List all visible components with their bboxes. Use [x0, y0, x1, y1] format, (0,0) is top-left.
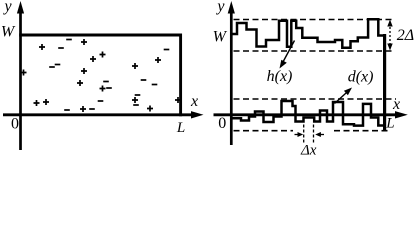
arrow from curve to h(x) label [280, 41, 295, 69]
svg-text:h(x): h(x) [267, 68, 293, 85]
svg-text:L: L [385, 115, 394, 131]
dashed vertical guide right of Delta-x step [313, 125, 315, 144]
svg-text:y: y [215, 0, 225, 15]
positive charges scattered in left panel [21, 39, 182, 112]
svg-text:W: W [213, 29, 228, 46]
right-pointing arrow of Delta-x indicator [295, 132, 304, 137]
left panel x-axis [3, 111, 204, 118]
dashed line upper bound of d(x) [234, 98, 397, 100]
right panel y-axis [228, 1, 235, 145]
arrow from curve to d(x) label [335, 88, 353, 104]
svg-text:0: 0 [11, 116, 19, 133]
right panel x-axis [214, 111, 408, 118]
dashed line y = W + Delta [234, 19, 394, 21]
svg-text:L: L [176, 120, 185, 136]
left panel y-axis [17, 1, 24, 150]
rough bottom curve d(x) [232, 101, 385, 126]
svg-text:y: y [2, 0, 12, 15]
svg-text:x: x [392, 96, 400, 113]
left-pointing arrow of Delta-x indicator [315, 132, 324, 137]
dashed line lower bound of d(x) left segment [234, 130, 294, 132]
right wall at x = L [383, 34, 386, 131]
negative charges scattered in left panel [49, 40, 169, 111]
dotted double-headed arrow for 2-Delta band [387, 20, 392, 51]
dashed line lower bound of d(x) right segment [334, 130, 391, 132]
dashed vertical guide left of Delta-x step [303, 125, 305, 144]
svg-text:0: 0 [218, 115, 226, 132]
dashed line y = W - Delta [234, 50, 394, 52]
svg-text:d(x): d(x) [348, 69, 374, 86]
svg-text:2Δ: 2Δ [397, 27, 414, 44]
rough boundary curve h(x) [231, 19, 384, 47]
left panel sample rectangle right edge (x = L) [179, 34, 182, 117]
svg-text:Δx: Δx [300, 142, 317, 157]
svg-text:W: W [1, 23, 16, 40]
left panel sample rectangle top edge (y = W) [19, 34, 182, 37]
svg-text:x: x [190, 93, 198, 110]
